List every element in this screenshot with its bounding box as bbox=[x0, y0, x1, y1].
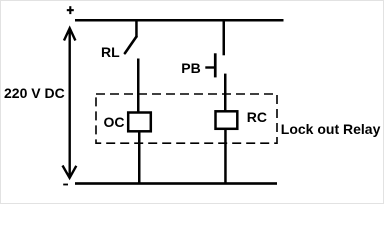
label OC bbox=[104, 115, 125, 129]
wire left branch drop from positive bus bbox=[135, 19, 138, 38]
coil OC box bbox=[128, 113, 151, 132]
wire left branch below RL switch to OC coil bbox=[137, 59, 140, 113]
node minus (-) negative supply terminal mark bbox=[63, 184, 68, 186]
wire positive bus (top horizontal) bbox=[75, 19, 284, 22]
switch RL contact blade (normally-open) bbox=[125, 37, 136, 54]
wire negative bus (bottom horizontal) bbox=[75, 182, 277, 185]
label 220 V DC supply voltage bbox=[4, 86, 65, 100]
pushbutton PB actuator stem bbox=[205, 66, 214, 68]
pushbutton PB actuator bar bbox=[214, 53, 217, 77]
double-headed arrow voltage span indicator bbox=[63, 28, 77, 178]
label PB bbox=[181, 61, 200, 75]
node plus (+) positive supply terminal mark bbox=[67, 6, 74, 14]
wire right branch drop from positive bus bbox=[223, 19, 226, 55]
wire right branch below PB to RC coil bbox=[224, 74, 227, 112]
coil RC box bbox=[216, 111, 238, 129]
dashed enclosure lock out relay boundary bbox=[96, 94, 277, 143]
wire right branch below RC coil to negative bus bbox=[224, 129, 227, 183]
label Lock out Relay bbox=[281, 122, 381, 136]
label RC bbox=[247, 110, 267, 124]
wire left branch below OC coil to negative bus bbox=[138, 131, 141, 183]
label RL bbox=[101, 45, 120, 59]
